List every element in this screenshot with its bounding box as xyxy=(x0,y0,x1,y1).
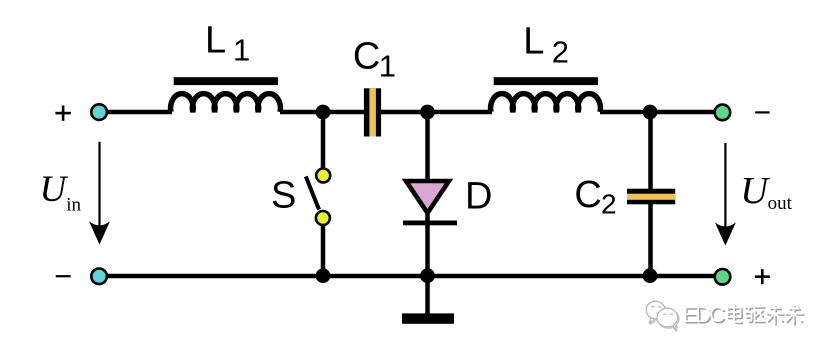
arrow Uout xyxy=(715,143,736,246)
wire top rail right segment xyxy=(600,110,714,115)
wire switch lower xyxy=(321,226,326,276)
plus sign output xyxy=(755,269,770,284)
label C1 xyxy=(353,36,396,84)
wire top rail between C1 and L2 xyxy=(381,110,492,115)
watermark text EDC xyxy=(683,302,727,328)
watermark text CJK 电驱未来 xyxy=(728,304,805,326)
svg-text:2: 2 xyxy=(601,189,617,220)
terminal - input bottom (cyan) xyxy=(91,269,107,285)
node junction bottom C2 xyxy=(643,268,658,283)
capacitor C1 xyxy=(364,88,381,136)
svg-text:EDC: EDC xyxy=(683,302,726,327)
node junction bottom diode/ground xyxy=(420,268,435,283)
node junction at switch tap xyxy=(316,105,331,120)
svg-text:2: 2 xyxy=(552,34,569,69)
svg-text:L: L xyxy=(523,21,544,63)
wire C2 upper xyxy=(648,112,653,189)
wire diode upper xyxy=(425,112,430,180)
svg-text:C: C xyxy=(353,36,380,78)
node junction at diode tap xyxy=(420,105,435,120)
label L2 xyxy=(523,21,569,70)
node junction bottom switch xyxy=(316,268,331,283)
arrow Uin xyxy=(89,142,110,245)
capacitor C2 xyxy=(627,189,675,205)
minus sign input xyxy=(56,275,71,277)
wire bottom rail xyxy=(106,274,714,279)
terminal - output top (green) xyxy=(715,105,731,121)
terminal + output bottom (green) xyxy=(715,269,731,285)
wire diode lower xyxy=(425,214,430,276)
svg-text:S: S xyxy=(271,175,296,217)
wire ground stub xyxy=(425,276,430,314)
label Uin xyxy=(40,169,82,216)
watermark logo EDC xyxy=(646,301,679,331)
label L1 xyxy=(205,20,250,68)
svg-text:out: out xyxy=(768,193,793,214)
svg-text:U: U xyxy=(740,170,770,212)
svg-text:U: U xyxy=(40,169,69,210)
node junction at C2 tap top xyxy=(643,105,658,120)
inductor L2 xyxy=(491,77,601,112)
switch S top contact xyxy=(316,169,330,183)
label Uout xyxy=(740,170,792,214)
switch S lever xyxy=(306,177,319,210)
svg-text:in: in xyxy=(66,195,81,216)
wire top rail left segment xyxy=(106,110,172,115)
svg-text:1: 1 xyxy=(233,33,250,68)
svg-text:1: 1 xyxy=(379,48,396,83)
svg-text:C: C xyxy=(574,174,601,216)
minus sign output xyxy=(755,111,770,113)
label C2 xyxy=(574,174,616,220)
svg-text:D: D xyxy=(465,176,492,218)
inductor L1 xyxy=(171,77,281,112)
switch S bottom contact xyxy=(316,211,330,225)
ground xyxy=(402,313,454,323)
terminal + input top (cyan) xyxy=(91,104,107,120)
svg-text:L: L xyxy=(205,20,226,62)
wire C2 lower xyxy=(648,204,653,276)
wire switch upper xyxy=(321,112,326,168)
wire top rail between L1 and C1 xyxy=(280,110,364,115)
plus sign input xyxy=(55,105,70,120)
diode D triangle xyxy=(406,181,449,213)
diode D cathode bar xyxy=(403,221,457,226)
